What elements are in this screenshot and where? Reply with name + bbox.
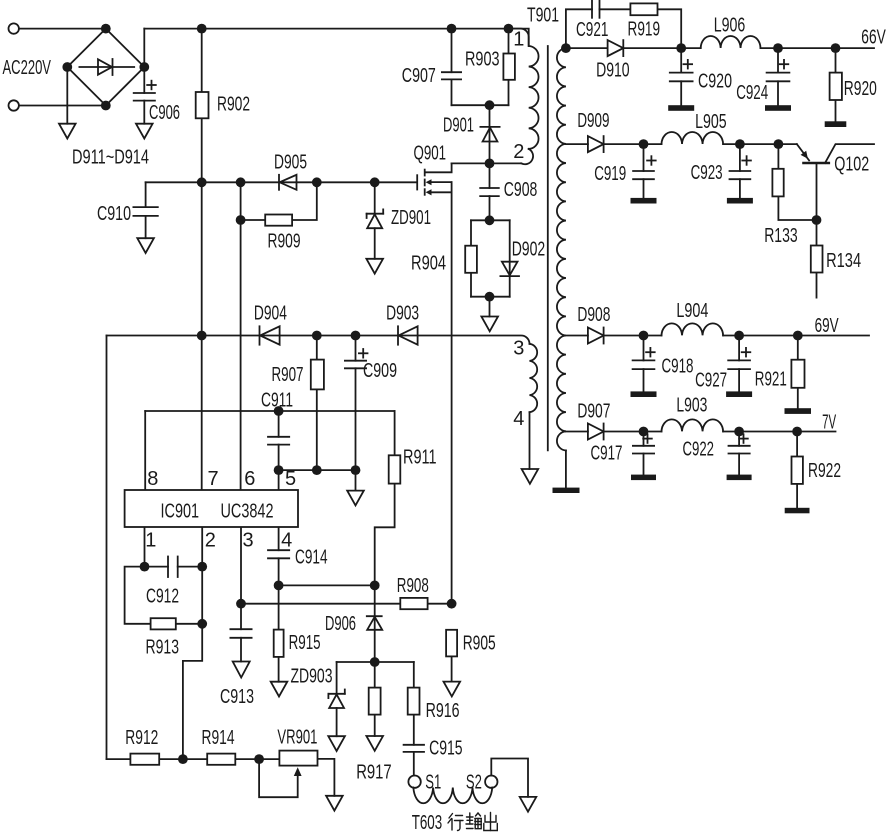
svg-text:D905: D905	[274, 152, 307, 174]
svg-text:R908: R908	[397, 575, 429, 597]
svg-text:C909: C909	[363, 360, 397, 382]
svg-text:C917: C917	[591, 443, 623, 465]
svg-text:R134: R134	[826, 250, 861, 272]
svg-text:AC220V: AC220V	[3, 57, 52, 79]
svg-text:C923: C923	[691, 162, 723, 184]
svg-text:D909: D909	[577, 110, 609, 132]
svg-text:D904: D904	[254, 303, 287, 325]
svg-text:C913: C913	[220, 686, 254, 708]
svg-text:UC3842: UC3842	[221, 501, 274, 523]
svg-text:66V: 66V	[861, 27, 886, 49]
svg-text:1: 1	[145, 530, 156, 552]
svg-text:L905: L905	[695, 111, 727, 133]
svg-text:R920: R920	[844, 78, 877, 100]
svg-text:R912: R912	[125, 727, 158, 749]
svg-text:C908: C908	[504, 179, 538, 201]
svg-text:2: 2	[205, 530, 216, 552]
svg-text:R133: R133	[764, 225, 798, 247]
svg-text:R903: R903	[465, 49, 500, 71]
svg-text:1: 1	[513, 29, 524, 51]
svg-text:R913: R913	[146, 637, 180, 659]
svg-text:S1: S1	[425, 772, 441, 794]
svg-text:8: 8	[147, 468, 158, 490]
svg-text:D910: D910	[596, 60, 630, 82]
svg-text:C922: C922	[683, 439, 715, 461]
svg-text:69V: 69V	[815, 315, 839, 337]
svg-text:C915: C915	[429, 738, 463, 760]
svg-text:ZD903: ZD903	[291, 666, 333, 688]
svg-text:R916: R916	[426, 700, 460, 722]
svg-text:C927: C927	[695, 370, 727, 392]
svg-text:S2: S2	[466, 772, 482, 794]
svg-text:D903: D903	[386, 303, 419, 325]
svg-text:R914: R914	[202, 727, 235, 749]
svg-text:R919: R919	[628, 19, 661, 41]
svg-text:C911: C911	[261, 390, 293, 412]
svg-text:D906: D906	[325, 613, 356, 635]
svg-text:R905: R905	[463, 633, 496, 655]
svg-text:R909: R909	[268, 231, 301, 253]
svg-text:Q901: Q901	[414, 143, 447, 165]
svg-text:R911: R911	[403, 447, 437, 469]
svg-text:4: 4	[281, 530, 292, 552]
svg-text:R904: R904	[411, 253, 446, 275]
svg-text:7: 7	[208, 468, 219, 490]
svg-text:C914: C914	[295, 547, 328, 569]
svg-text:R917: R917	[356, 761, 392, 783]
svg-text:L903: L903	[676, 395, 707, 417]
svg-text:L906: L906	[714, 15, 746, 37]
svg-text:Q102: Q102	[834, 154, 869, 176]
svg-text:R921: R921	[755, 369, 787, 391]
svg-text:C924: C924	[736, 82, 768, 104]
svg-text:5: 5	[285, 468, 296, 490]
svg-text:T603: T603	[412, 812, 443, 834]
svg-text:C907: C907	[402, 65, 436, 87]
svg-text:L904: L904	[676, 300, 708, 322]
svg-text:C910: C910	[97, 203, 131, 225]
svg-text:R902: R902	[217, 94, 250, 116]
svg-text:D911~D914: D911~D914	[72, 147, 149, 169]
svg-text:D907: D907	[577, 401, 610, 423]
svg-text:R915: R915	[289, 632, 321, 654]
svg-text:6: 6	[244, 468, 255, 490]
svg-text:D901: D901	[443, 115, 474, 137]
svg-text:3: 3	[243, 530, 254, 552]
svg-text:C918: C918	[662, 356, 694, 378]
svg-text:4: 4	[513, 408, 524, 430]
svg-text:ZD901: ZD901	[391, 207, 431, 229]
svg-text:IC901: IC901	[161, 501, 200, 523]
svg-text:C920: C920	[698, 71, 732, 93]
svg-text:D908: D908	[577, 304, 610, 326]
svg-text:VR901: VR901	[277, 727, 317, 749]
svg-text:C921: C921	[576, 19, 608, 41]
svg-text:R907: R907	[272, 364, 304, 386]
svg-text:R922: R922	[808, 460, 841, 482]
svg-text:2: 2	[513, 141, 524, 163]
svg-text:D902: D902	[512, 239, 546, 261]
svg-text:T901: T901	[527, 5, 559, 27]
svg-text:7V: 7V	[822, 412, 836, 434]
svg-text:C919: C919	[594, 163, 626, 185]
svg-text:C906: C906	[149, 102, 180, 124]
svg-text:C912: C912	[146, 586, 179, 608]
svg-text:3: 3	[513, 337, 524, 359]
